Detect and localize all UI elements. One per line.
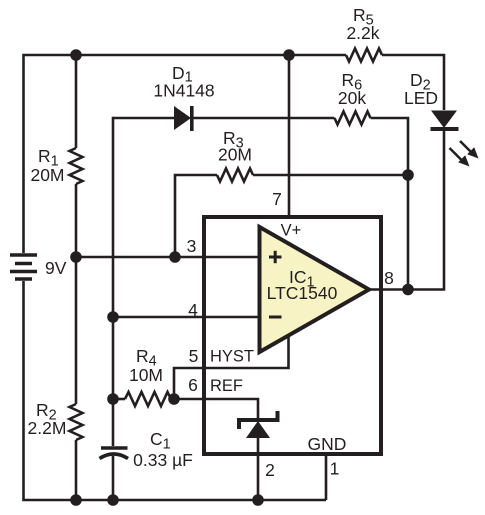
svg-text:2.2k: 2.2k — [346, 23, 379, 43]
node pin3 divider junction — [70, 251, 82, 263]
svg-text:20M: 20M — [30, 165, 64, 185]
zener reference triangle — [246, 421, 270, 438]
svg-text:1: 1 — [330, 459, 340, 479]
svg-text:3: 3 — [187, 236, 197, 256]
wire top rail left segment and left rail to battery — [24, 55, 347, 253]
wire left rail battery negative down and bottom rail — [24, 281, 327, 500]
wire R3 right lead to output column — [253, 174, 408, 177]
svg-text:LED: LED — [404, 88, 438, 108]
node C1 bottom rail — [107, 494, 119, 506]
node R3 output column junction — [402, 169, 414, 181]
node top rail V+ column — [283, 49, 295, 61]
svg-text:2: 2 — [265, 460, 275, 480]
node R4 pin5 pin6 junction — [168, 393, 180, 405]
svg-text:9V: 9V — [45, 258, 67, 278]
LED D2 triangle — [431, 111, 457, 129]
zener reference diode inside IC — [239, 411, 278, 429]
node R2 bottom rail — [70, 494, 82, 506]
wire D1 anode lead — [113, 117, 174, 120]
resistor R1 — [70, 148, 83, 184]
wire zener anode down to bottom rail pin 2 — [257, 438, 260, 500]
wire top rail right segment into LED column — [382, 55, 444, 110]
diode D1 cathode bar — [190, 106, 194, 131]
wire R4 left lead from C1 node — [113, 398, 125, 401]
wire pin 5 HYST to internal hysteresis tap — [174, 335, 289, 399]
resistor R4 — [125, 392, 171, 406]
svg-text:GND: GND — [308, 434, 347, 454]
wire D1 column down to C1 top — [112, 117, 115, 446]
svg-text:20M: 20M — [218, 145, 252, 165]
IC1 package box — [204, 217, 381, 454]
svg-text:C1: C1 — [150, 429, 171, 453]
capacitor C1 top plate — [101, 446, 128, 450]
wire pin 4 to op-amp - input — [113, 316, 260, 319]
resistor R2 — [70, 404, 83, 440]
svg-text:8: 8 — [384, 268, 394, 288]
svg-text:5: 5 — [189, 346, 199, 366]
svg-text:20k: 20k — [338, 88, 366, 108]
wire R6 right corner down output column — [371, 118, 409, 290]
node pin8 output junction — [402, 284, 414, 296]
resistor R6 — [335, 112, 371, 125]
wire D1 cathode to R6 — [192, 117, 335, 120]
wire pin 1 GND to bottom rail — [325, 454, 328, 500]
wire C1 bottom lead — [112, 456, 115, 500]
wire pin 6 REF to internal reference — [171, 399, 258, 418]
op-amp minus input symbol — [269, 316, 282, 319]
svg-text:7: 7 — [272, 189, 282, 209]
svg-text:2.2M: 2.2M — [28, 418, 67, 438]
wire R2 bottom lead — [75, 440, 78, 500]
resistor R3 — [217, 169, 253, 182]
node pin2 bottom rail — [252, 494, 264, 506]
op-amp plus input symbol — [269, 251, 282, 263]
LED D2 cathode bar — [431, 127, 459, 131]
node pin4 junction — [107, 311, 119, 323]
node top rail R1 — [70, 49, 82, 61]
svg-text:10M: 10M — [129, 365, 163, 385]
svg-text:LTC1540: LTC1540 — [267, 283, 338, 303]
resistor R5 — [346, 49, 382, 62]
svg-text:HYST: HYST — [210, 348, 254, 366]
svg-text:6: 6 — [188, 375, 198, 395]
wire pin 7 V+ column — [288, 55, 291, 217]
svg-text:1N4148: 1N4148 — [153, 81, 214, 101]
LED D2 emission arrow upper — [460, 141, 479, 159]
svg-text:REF: REF — [210, 377, 243, 395]
wire R1 bottom to R2 top — [75, 184, 78, 404]
svg-text:0.33 µF: 0.33 µF — [133, 450, 193, 470]
wire R3 left leg down to pin3 node — [175, 175, 217, 257]
wire LED cathode down to pin 8 output — [369, 129, 444, 290]
node R4 C1 junction — [107, 393, 119, 405]
node pin3 R3 junction — [169, 251, 181, 263]
battery 9V plates — [10, 255, 37, 279]
svg-text:V+: V+ — [281, 222, 302, 240]
svg-text:4: 4 — [188, 300, 198, 320]
wire pin 3 node to op-amp + input — [76, 256, 260, 259]
op-amp IC1 LTC1540 comparator triangle — [260, 227, 370, 352]
diode D1 — [174, 106, 191, 130]
LED D2 emission arrow lower — [450, 148, 470, 167]
wire R1 top lead — [75, 55, 78, 148]
capacitor C1 bottom curved plate — [100, 454, 129, 459]
